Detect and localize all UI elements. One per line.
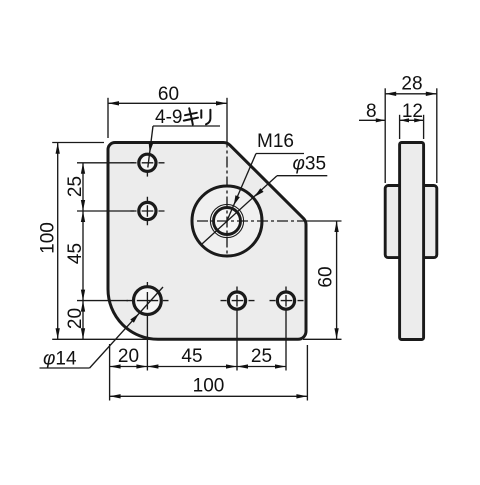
- side view column (plate edge): [400, 143, 424, 340]
- dim bottom 100: [110, 395, 308, 397]
- hole D bottom right (9 drill): [277, 292, 294, 309]
- svg-text:20: 20: [118, 346, 139, 367]
- svg-text:4-9: 4-9: [155, 107, 182, 128]
- dim top 60: [108, 102, 227, 104]
- leader for 4-9 kiri: [153, 125, 220, 127]
- hole A top-left (9 drill): [139, 154, 156, 171]
- svg-text:60: 60: [158, 84, 179, 105]
- svg-text:25: 25: [65, 176, 86, 197]
- svg-text:φ14: φ14: [43, 349, 77, 370]
- hole phi14 bottom-left: [134, 287, 162, 315]
- dim left 100: [57, 143, 59, 339]
- dim bottom chain 25: [237, 366, 286, 368]
- drill circle of M16: [214, 208, 241, 235]
- dim bottom chain 45: [147, 366, 237, 368]
- svg-text:25: 25: [251, 346, 272, 367]
- dim side 28: [385, 93, 437, 95]
- dim side 12: [400, 119, 424, 121]
- thread thin circle M16: [210, 204, 243, 237]
- svg-text:8: 8: [366, 101, 377, 122]
- dim bottom chain 20: [110, 366, 148, 368]
- dim side 8: [359, 119, 385, 121]
- svg-text:100: 100: [193, 376, 225, 397]
- svg-text:20: 20: [65, 308, 86, 329]
- svg-text:45: 45: [65, 243, 86, 264]
- dim left chain 25: [82, 163, 84, 211]
- katakana ri: [201, 110, 210, 125]
- svg-text:12: 12: [402, 101, 423, 122]
- side view wide block (boss): [385, 186, 437, 258]
- dim left chain 20: [82, 301, 84, 340]
- dim left chain 45: [82, 211, 84, 301]
- svg-text:M16: M16: [257, 131, 294, 152]
- svg-text:100: 100: [37, 222, 58, 254]
- vertical centerline big circle + top extension: [226, 98, 228, 143]
- big boss circle phi35: [192, 186, 262, 256]
- horizontal centerline big circle + right extension: [197, 220, 308, 222]
- svg-text:φ35: φ35: [293, 154, 327, 175]
- svg-text:60: 60: [315, 266, 336, 287]
- hole B second-left (9 drill): [139, 202, 156, 219]
- hole C bottom middle (9 drill): [228, 292, 245, 309]
- katakana ki: [184, 108, 198, 124]
- svg-text:45: 45: [181, 346, 202, 367]
- svg-text:28: 28: [401, 74, 422, 95]
- front view plate outline: [108, 143, 306, 340]
- dim right 60: [336, 221, 338, 339]
